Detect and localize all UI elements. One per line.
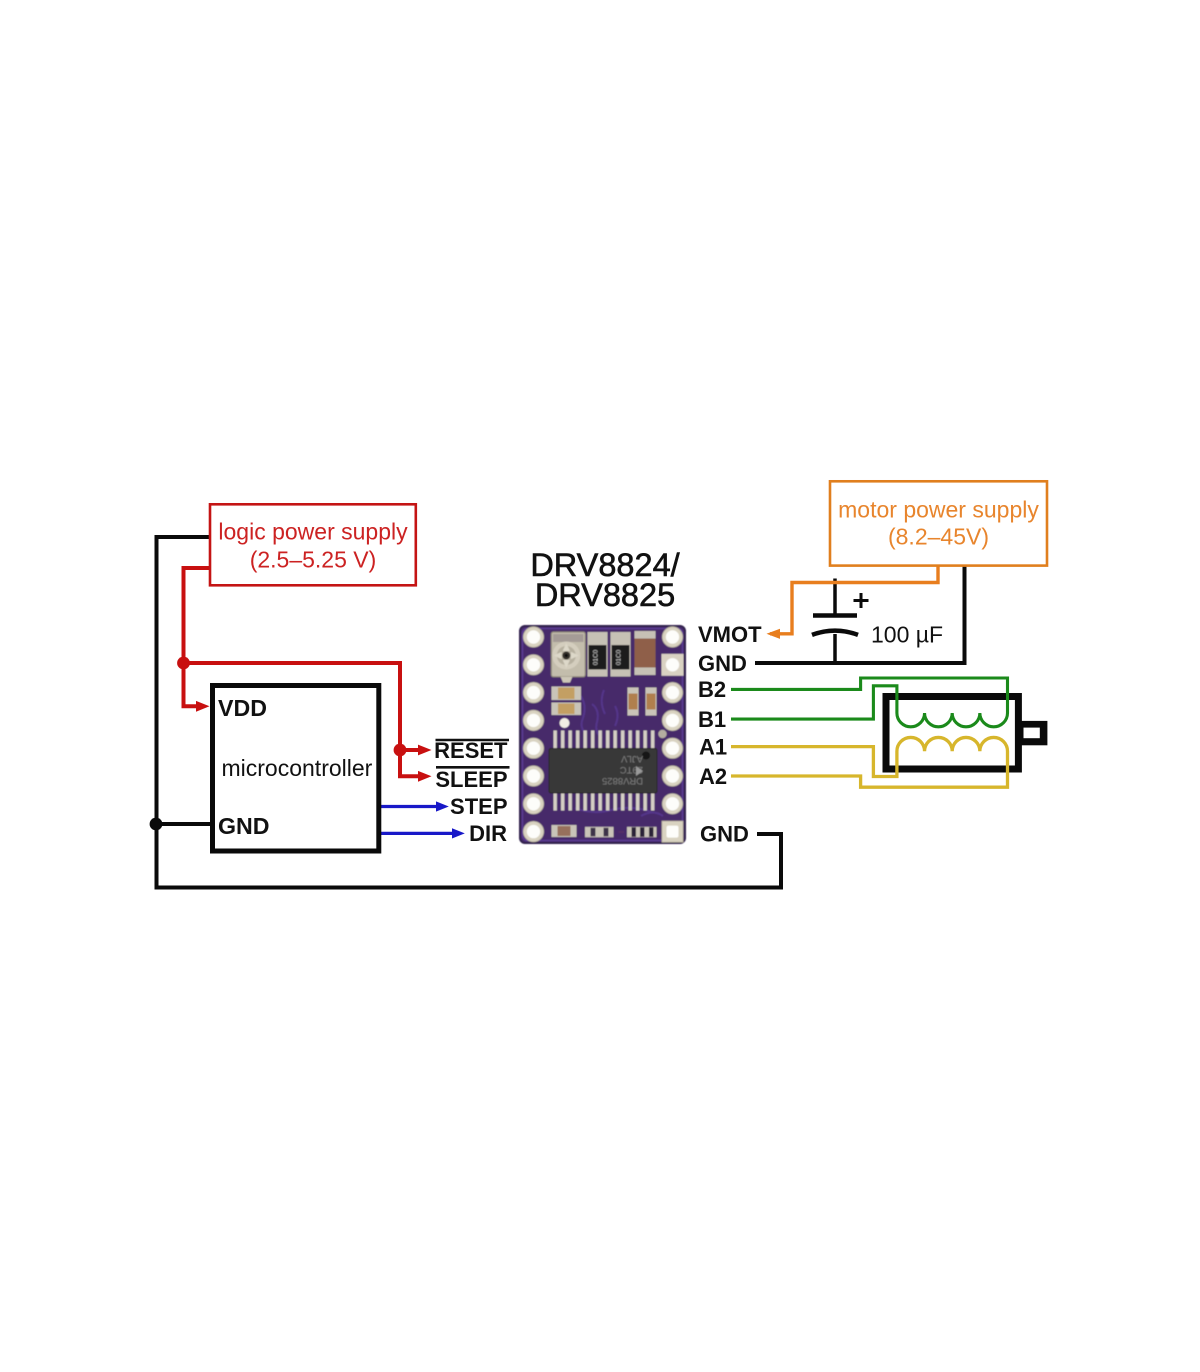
wire red logic supply to VDD (184, 568, 211, 706)
svg-text:VDD: VDD (218, 695, 267, 721)
svg-text:AJLV: AJLV (620, 753, 643, 764)
svg-text:RESET: RESET (434, 738, 508, 763)
pin 12 right B1 (662, 710, 682, 730)
wire blue STEP (379, 805, 437, 808)
pin 5 left (523, 738, 543, 758)
motor power supply box (830, 481, 1047, 565)
resistor R100 #2 (611, 632, 631, 677)
wire ground main loop (157, 537, 782, 888)
svg-text:DIR: DIR (469, 821, 507, 846)
pin label SLEEP with overline (436, 766, 510, 769)
via white (560, 718, 570, 728)
pin 15 right (662, 794, 682, 814)
bottom resistor tan (552, 825, 577, 837)
pin 7 left (523, 794, 543, 814)
arrowhead blue STEP (436, 801, 449, 811)
svg-text:B1: B1 (698, 707, 726, 732)
svg-text:(2.5–5.25 V): (2.5–5.25 V) (250, 547, 377, 573)
svg-text:VMOT: VMOT (698, 622, 762, 647)
svg-text:STEP: STEP (450, 794, 507, 819)
capacitor C1 curved plate (812, 631, 858, 635)
small resistor left #1 (552, 687, 582, 701)
capacitor C1 bottom lead (833, 634, 837, 663)
pin 10 right GND square pad (662, 654, 684, 676)
capacitor C1 top plate (813, 613, 857, 618)
pin label RESET with overline (436, 739, 510, 742)
pin 11 right B2 (662, 682, 682, 702)
wire yellow A1/A2 with coil (731, 737, 1008, 787)
trimmer potentiometer (551, 632, 585, 677)
arrowhead orange into VMOT (767, 629, 781, 639)
wire ground stub to microcontroller (156, 822, 212, 826)
svg-text:GND: GND (218, 813, 270, 839)
capacitor smd tan (635, 631, 656, 675)
node ground junction (150, 818, 163, 831)
pin 4 left (523, 710, 543, 730)
capacitor C1 top lead (833, 579, 837, 617)
wire green B2/B1 with coil (731, 678, 1008, 727)
wire GND to motor supply (755, 566, 965, 664)
small part right #2 (646, 688, 657, 716)
capacitor C1 plus sign (854, 593, 869, 608)
svg-text:microcontroller: microcontroller (222, 755, 373, 781)
small resistor left #2 (552, 703, 582, 716)
svg-text:GND: GND (700, 822, 749, 847)
svg-text:100 µF: 100 µF (871, 622, 943, 648)
pin 9 right VMOT (662, 627, 682, 647)
board pcb (520, 626, 685, 843)
wire blue DIR (379, 832, 453, 835)
svg-text:motor power supply: motor power supply (838, 497, 1039, 523)
svg-text:01C0: 01C0 (616, 649, 623, 665)
svg-text:SLEEP: SLEEP (435, 767, 507, 792)
svg-text:01C0: 01C0 (593, 649, 600, 665)
svg-text:A2: A2 (699, 764, 727, 789)
pin 14 right A2 (662, 766, 682, 786)
wire orange motor supply to VMOT (770, 566, 938, 634)
logic power supply box (210, 504, 416, 585)
pin 13 right A1 (662, 738, 682, 758)
IC U1 body (549, 749, 657, 794)
svg-text:DRV8825: DRV8825 (535, 577, 675, 613)
arrowhead red into VDD (196, 701, 210, 712)
resistor R100 #1 (588, 632, 608, 677)
arrowhead red into SLEEP (418, 771, 432, 782)
pin 16 right GND square pad (662, 821, 683, 842)
svg-text:A1: A1 (699, 735, 727, 760)
svg-text:B2: B2 (698, 677, 726, 702)
svg-text:GND: GND (698, 651, 747, 676)
bottom smd parts (585, 827, 614, 838)
node red junction left (177, 657, 190, 670)
IC U1 marking text (rotated 180) (602, 753, 643, 786)
small part right #1 (628, 688, 639, 716)
motor body (886, 697, 1018, 770)
wire red branch to RESET/SLEEP (184, 663, 420, 776)
IC U1 leads top (554, 731, 655, 749)
via silver (658, 730, 666, 738)
pin 6 left (523, 766, 543, 786)
IC U1 leads bottom (554, 793, 655, 811)
svg-text:(8.2–45V): (8.2–45V) (888, 524, 989, 550)
pin 2 left (523, 655, 543, 675)
IC logo mark (636, 766, 643, 776)
motor shaft (1018, 721, 1047, 745)
pin 1 left (through-hole) (523, 627, 543, 647)
node red junction right (394, 744, 407, 757)
svg-text:DRV8825: DRV8825 (602, 775, 643, 786)
pin 3 left (523, 682, 543, 702)
arrowhead blue DIR (452, 828, 465, 838)
microcontroller box (213, 686, 379, 852)
wire red RESET stub (400, 748, 420, 752)
arrowhead red into RESET (418, 745, 432, 756)
board trace texture (575, 690, 663, 816)
svg-text:logic power supply: logic power supply (218, 519, 408, 545)
pin 8 left (523, 821, 543, 841)
